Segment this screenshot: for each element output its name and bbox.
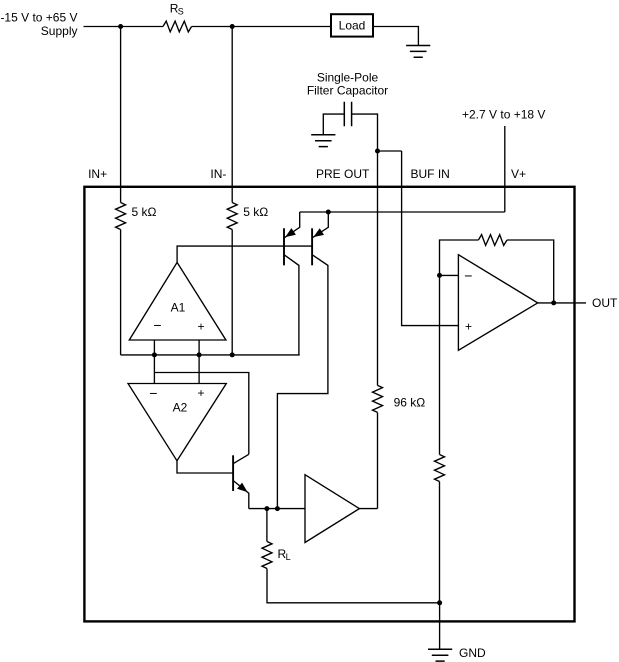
resistor 5k (IN-)	[227, 203, 237, 230]
node junction output	[551, 300, 556, 305]
node junction IN-	[230, 352, 235, 357]
wire: feedback right to output	[507, 240, 554, 303]
svg-text:Supply: Supply	[41, 24, 78, 38]
svg-text:A2: A2	[173, 401, 188, 415]
svg-text:+: +	[197, 386, 204, 400]
svg-text:BUF IN: BUF IN	[411, 167, 450, 181]
svg-text:+: +	[197, 319, 204, 333]
op-amp A1	[129, 262, 226, 340]
wire: RL drop	[266, 509, 268, 542]
buffer amplifier U3	[305, 475, 359, 543]
svg-text:A1: A1	[171, 300, 186, 314]
svg-text:Single-Pole: Single-Pole	[317, 70, 379, 84]
ground (GND pin)	[428, 649, 452, 661]
transistor Q1 (left PNP) base bar	[283, 228, 285, 265]
wire: emitter rail to V+	[300, 211, 505, 213]
svg-text:-15 V to +65 V: -15 V to +65 V	[0, 11, 77, 25]
node junction emitters	[326, 210, 331, 215]
wire: A1 non-inverting input stub	[198, 340, 200, 355]
svg-text:OUT: OUT	[592, 296, 618, 310]
wire: IN+ drop	[120, 27, 122, 203]
svg-text:−: −	[149, 385, 157, 401]
resistor divider	[435, 455, 445, 482]
wire: RL to ground rail	[267, 569, 440, 603]
Load box	[331, 14, 373, 36]
wire: A2 output to Q3 base	[177, 461, 233, 473]
Q1 emitter	[284, 212, 300, 238]
wire: U2- down to divider resistor	[439, 275, 441, 454]
wire: BUF IN line	[402, 151, 459, 326]
wire: PRE OUT line upper	[377, 151, 379, 385]
node junction A1+	[197, 352, 202, 357]
wire: U2 inverting input	[440, 274, 459, 276]
node junction Q2 collector	[275, 506, 280, 511]
svg-text:+: +	[465, 319, 472, 333]
resistor feedback	[478, 235, 507, 246]
svg-text:PRE OUT: PRE OUT	[316, 167, 370, 181]
wire: A1 inverting input stub	[153, 340, 155, 355]
node junction PRE OUT/BUF IN	[375, 149, 380, 154]
wire: supply rail to Load	[192, 26, 331, 28]
svg-text:−: −	[464, 268, 472, 284]
svg-text:V+: V+	[511, 167, 526, 181]
svg-text:L: L	[286, 552, 291, 562]
Q1 collector	[284, 255, 299, 355]
wire: cap left to ground	[323, 114, 344, 134]
wire: supply rail left	[84, 26, 164, 28]
Q3 collector	[233, 454, 249, 463]
svg-text:5 kΩ: 5 kΩ	[132, 205, 157, 219]
wire: PRE OUT line lower	[377, 412, 379, 508]
wire: V+ pin	[504, 126, 506, 212]
svg-text:S: S	[178, 7, 184, 17]
transistor Q2 (right PNP) base bar	[311, 228, 313, 265]
svg-text:−: −	[153, 317, 161, 333]
wire: Load to ground	[373, 27, 418, 46]
transistor Q3 (NPN) base bar	[232, 455, 234, 491]
wire: node to A2 non-inverting	[198, 355, 200, 384]
svg-text:5 kΩ: 5 kΩ	[243, 205, 268, 219]
node junction U2-	[437, 273, 442, 278]
wire: IN- resistor to node line	[231, 230, 233, 355]
resistor RL	[262, 542, 272, 569]
Q2 emitter	[312, 212, 328, 238]
ground (capacitor)	[311, 135, 335, 147]
svg-text:IN+: IN+	[88, 167, 107, 181]
Q2 collector	[277, 255, 328, 509]
resistor 5k (IN+)	[116, 203, 126, 230]
wire: IN+ resistor to node line	[120, 230, 122, 355]
wire: U2 output	[538, 302, 586, 304]
wire: input node line	[121, 354, 300, 356]
node junction IN+ tap	[118, 24, 123, 29]
op-amp U2 (output buffer)	[458, 255, 537, 351]
op-amp A2	[128, 384, 226, 461]
wire: IN- drop	[231, 27, 233, 203]
node junction RL	[264, 506, 269, 511]
svg-text:Filter Capacitor: Filter Capacitor	[307, 83, 388, 97]
wire: emitter node line	[249, 508, 305, 510]
svg-text:96 kΩ: 96 kΩ	[394, 396, 426, 410]
wire: node to A2 inverting	[153, 355, 155, 384]
node junction IN- tap	[230, 24, 235, 29]
svg-text:Load: Load	[339, 19, 366, 33]
Q3 emitter	[233, 481, 249, 509]
svg-text:+2.7 V to +18 V: +2.7 V to +18 V	[462, 107, 545, 121]
capacitor C1 plates	[344, 102, 351, 127]
wire: buffer output to PRE OUT line	[359, 508, 377, 510]
wire: A1 output to transistor bases	[177, 246, 312, 262]
svg-text:IN-: IN-	[210, 167, 226, 181]
wire: divider to ground rail	[439, 482, 441, 603]
resistor RS	[163, 21, 192, 32]
wire: GND pin	[439, 603, 441, 650]
wire: jumper to BUF IN	[378, 150, 402, 152]
ground (load)	[406, 46, 430, 58]
wire: cap right to PRE OUT node	[352, 114, 378, 151]
wire: A2- branch to Q3 collector	[154, 373, 248, 455]
IC boundary box	[84, 187, 574, 622]
wire: feedback left rise	[440, 240, 479, 275]
node junction ground rail	[437, 600, 442, 605]
resistor 96k	[373, 385, 383, 412]
svg-text:GND: GND	[459, 646, 486, 660]
node junction A1-	[152, 352, 157, 357]
